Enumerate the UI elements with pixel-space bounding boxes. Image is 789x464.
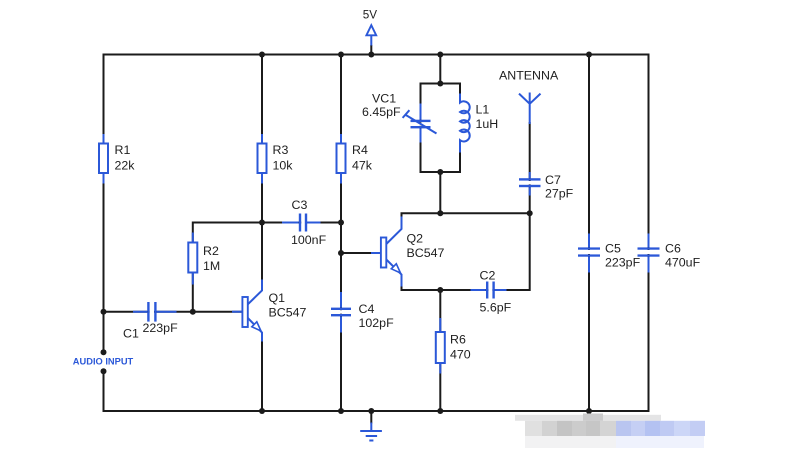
wire left column: [103, 54, 105, 353]
wire R2 top / C3 wire: [193, 222, 341, 224]
junction node top: R4 column: [338, 52, 344, 58]
capacitor C4: [331, 292, 351, 333]
junction node C1 left: [101, 309, 107, 315]
junction node audio input bottom: [101, 368, 107, 374]
svg-text:L1: L1: [476, 103, 490, 117]
wire left column lower: [103, 372, 105, 413]
junction node bottom: C4 column: [338, 408, 344, 414]
junction node top: tank stem: [437, 52, 443, 58]
svg-text:C1: C1: [123, 327, 139, 341]
junction node C3 right: [338, 220, 344, 226]
svg-text:470: 470: [450, 348, 471, 362]
wire tank top stem: [439, 55, 441, 84]
junction node audio input top: [101, 349, 107, 355]
wire R4/C4 column: [340, 55, 342, 412]
junction node top: 5V: [368, 52, 374, 58]
power 5V symbol: [366, 25, 376, 45]
svg-text:C3: C3: [292, 198, 308, 212]
svg-text:1M: 1M: [203, 259, 220, 273]
svg-text:Q1: Q1: [269, 291, 286, 305]
svg-text:ANTENNA: ANTENNA: [499, 69, 559, 83]
svg-text:BC547: BC547: [269, 306, 307, 320]
svg-text:47k: 47k: [352, 159, 373, 173]
svg-text:R1: R1: [115, 143, 131, 157]
svg-text:10k: 10k: [273, 159, 294, 173]
wire tank bottom stem: [439, 172, 441, 213]
inductor L1: [459, 94, 470, 153]
resistor R3: [258, 134, 267, 184]
wire R3/Q1 collector column: [261, 55, 263, 291]
wire C1 / Q1 base wire: [104, 311, 243, 313]
junction node top: R3 column: [259, 52, 265, 58]
svg-text:27pF: 27pF: [545, 187, 574, 201]
wire C5 column: [588, 55, 590, 412]
svg-text:C2: C2: [480, 269, 496, 283]
wire bottom rail: [104, 410, 649, 412]
svg-text:22k: 22k: [115, 159, 136, 173]
junction node Q2 base: [338, 250, 344, 256]
junction node loop top / tank: [437, 210, 443, 216]
wire Q2 base wire: [341, 252, 381, 254]
junction node bottom: R6: [437, 408, 443, 414]
junction node bottom: ground: [368, 408, 374, 414]
svg-text:102pF: 102pF: [359, 316, 395, 330]
svg-text:VC1: VC1: [372, 91, 396, 105]
resistor R2: [188, 233, 197, 285]
ground symbol: [360, 423, 382, 441]
wire ground stem: [370, 411, 372, 424]
resistor R6: [436, 318, 445, 374]
capacitor C1: [133, 302, 177, 322]
junction node bottom: Q1 emitter: [259, 408, 265, 414]
capacitor C5: [578, 234, 600, 273]
wire right column (C6): [648, 54, 650, 413]
wire Q1 emitter column: [261, 333, 263, 411]
wire R6 column: [439, 290, 441, 411]
junction node tank bottom: [437, 169, 443, 175]
svg-text:R4: R4: [352, 143, 368, 157]
svg-text:C4: C4: [359, 302, 375, 316]
capacitor C2: [471, 282, 507, 299]
capacitor C3: [282, 214, 321, 232]
transistor Q1: [232, 280, 262, 342]
svg-text:R6: R6: [450, 333, 466, 347]
junction node C3 left: [259, 220, 265, 226]
wire antenna / C7 column: [529, 122, 531, 213]
svg-text:C6: C6: [665, 242, 681, 256]
resistor R1: [99, 134, 108, 184]
antenna symbol: [519, 93, 541, 125]
capacitor C6: [638, 234, 660, 273]
junction node bottom: C5: [586, 408, 592, 414]
capacitor C7: [519, 172, 541, 196]
svg-text:R2: R2: [203, 244, 219, 258]
wire 5V stem: [370, 45, 372, 55]
svg-text:470uF: 470uF: [665, 256, 701, 270]
junction node tank top: [437, 81, 443, 87]
junction node top: C5 column: [586, 52, 592, 58]
svg-text:C7: C7: [545, 173, 561, 187]
svg-text:223pF: 223pF: [605, 256, 641, 270]
svg-text:Q2: Q2: [407, 232, 424, 246]
svg-text:AUDIO INPUT: AUDIO INPUT: [73, 357, 134, 367]
svg-text:R3: R3: [273, 143, 289, 157]
watermark mosaic: [515, 414, 705, 449]
svg-text:1uH: 1uH: [476, 117, 499, 131]
wire top rail: [104, 54, 649, 56]
junction node loop top / C7: [527, 210, 533, 216]
svg-text:6.45pF: 6.45pF: [362, 105, 401, 119]
svg-text:5.6pF: 5.6pF: [480, 301, 512, 315]
variable capacitor VC1: [403, 104, 437, 143]
wire tank loop box: [421, 84, 461, 173]
wire oscillator loop rectangle: [402, 213, 530, 290]
svg-text:C5: C5: [605, 242, 621, 256]
wire R2 column: [192, 222, 194, 312]
svg-text:223pF: 223pF: [143, 321, 179, 335]
junction node loop bottom / R6: [437, 287, 443, 293]
svg-text:BC547: BC547: [407, 246, 445, 260]
resistor R4: [337, 134, 346, 184]
transistor Q2: [371, 217, 402, 287]
svg-text:5V: 5V: [363, 8, 378, 21]
svg-text:100nF: 100nF: [291, 233, 327, 247]
junction node C1 right / R2: [190, 309, 196, 315]
